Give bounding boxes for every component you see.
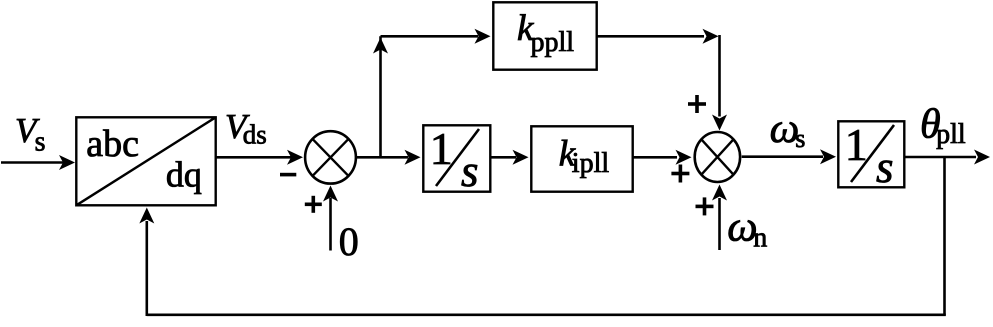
svg-text:ppll: ppll: [531, 27, 575, 58]
node omega_s label: [770, 106, 806, 153]
wire input Vs: [1, 155, 75, 170]
node omega_n label: [727, 204, 767, 254]
node theta_pll label: [920, 102, 966, 151]
svg-text:s: s: [35, 127, 46, 158]
wire S2 output omega_s to integrator: [742, 149, 836, 164]
svg-text:s: s: [876, 142, 894, 192]
summing junction S1: [305, 131, 356, 183]
wire kppll output to summing junction S2: [597, 29, 727, 131]
plus sign left of summing junction S2: [671, 165, 689, 183]
wire Vds to summing junction: [216, 150, 303, 165]
block abc/dq transform U1: [76, 117, 215, 205]
wire branch up to proportional path: [373, 29, 491, 158]
svg-text:pll: pll: [936, 119, 966, 150]
plus sign below summing junction S2: [696, 197, 714, 215]
wire feedback path: [139, 157, 946, 316]
wire zero reference input: [323, 186, 338, 251]
wire theta_pll output: [904, 150, 990, 165]
node Vds label: [225, 107, 267, 150]
wire S1 output to integrator: [357, 150, 421, 165]
svg-text:ipll: ipll: [572, 148, 610, 179]
svg-text:dq: dq: [166, 154, 202, 194]
block kppll gain: [493, 2, 596, 69]
svg-text:abc: abc: [86, 123, 139, 165]
plus sign top of summing junction S2: [688, 95, 706, 113]
svg-text:ds: ds: [243, 120, 267, 150]
svg-text:n: n: [753, 223, 767, 254]
plus sign below summing junction S1: [305, 196, 322, 213]
summing junction S2: [695, 132, 740, 182]
minus sign at summing junction S1: [280, 173, 296, 177]
svg-text:s: s: [461, 146, 479, 196]
svg-text:0: 0: [339, 219, 359, 264]
svg-text:s: s: [795, 124, 805, 153]
wire kipll output to summing junction S2: [633, 150, 692, 165]
node Vs label: [15, 111, 46, 158]
wire integrator to kipll: [490, 150, 528, 165]
block integrator 1/s second: [838, 119, 904, 192]
block kipll gain: [531, 126, 632, 191]
wire omega_n input: [712, 185, 727, 251]
block integrator 1/s first: [423, 123, 490, 196]
